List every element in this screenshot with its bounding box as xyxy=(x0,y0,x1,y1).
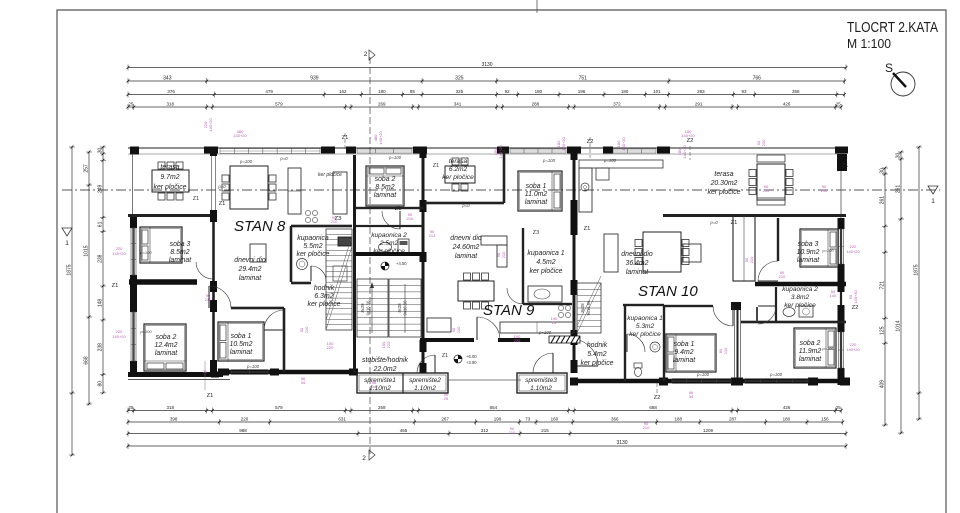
svg-text:ker pločice: ker pločice xyxy=(154,184,187,191)
svg-text:p=0: p=0 xyxy=(279,156,288,161)
svg-text:S: S xyxy=(885,61,893,75)
svg-text:5.4m2: 5.4m2 xyxy=(587,351,606,358)
svg-text:25: 25 xyxy=(444,396,449,401)
door soba3 xyxy=(196,262,213,279)
svg-text:ker pločice: ker pločice xyxy=(581,360,614,367)
svg-text:36.4m2: 36.4m2 xyxy=(626,260,649,267)
svg-text:p=0: p=0 xyxy=(709,220,718,225)
svg-text:laminat: laminat xyxy=(455,253,478,260)
svg-text:465: 465 xyxy=(400,428,408,433)
svg-text:1.10m2: 1.10m2 xyxy=(530,385,552,392)
stairwell right wall xyxy=(422,155,425,373)
svg-text:283: 283 xyxy=(697,89,705,94)
svg-text:140: 140 xyxy=(830,293,837,298)
svg-text:140+20: 140+20 xyxy=(498,145,503,159)
svg-text:kupaonica 2: kupaonica 2 xyxy=(782,286,818,293)
svg-text:8x28: 8x28 xyxy=(360,303,365,313)
svg-text:1209: 1209 xyxy=(703,428,714,433)
stan9 bottom wall xyxy=(420,338,474,342)
svg-text:8.5m2: 8.5m2 xyxy=(375,184,394,191)
tv cabinet xyxy=(250,244,266,262)
svg-text:220: 220 xyxy=(514,338,521,343)
right dimension chains xyxy=(918,147,920,419)
bottom wall stan10 xyxy=(570,379,850,384)
soba 1 stan9 bed xyxy=(518,171,562,211)
svg-text:stubište/hodnik: stubište/hodnik xyxy=(362,357,409,364)
wall left of soba3 xyxy=(777,218,779,261)
main stairwell flights xyxy=(354,252,424,256)
svg-text:+4.50: +4.50 xyxy=(396,261,407,266)
svg-text:190: 190 xyxy=(494,417,502,422)
svg-text:6.2m2: 6.2m2 xyxy=(449,166,468,173)
svg-text:8x28: 8x28 xyxy=(580,303,585,313)
soba 3 stan10 bed xyxy=(800,229,838,267)
svg-text:soba 3: soba 3 xyxy=(798,241,819,248)
stan9 entry door xyxy=(477,317,500,340)
wall under soba2 stan9 xyxy=(356,207,423,209)
svg-text:hodnik: hodnik xyxy=(314,285,335,292)
svg-text:p=100: p=100 xyxy=(603,158,617,163)
svg-text:9.7m2: 9.7m2 xyxy=(160,174,179,181)
svg-text:11.9m2: 11.9m2 xyxy=(799,348,822,355)
soba 1 stan9 walls xyxy=(503,150,506,203)
svg-text:372: 372 xyxy=(613,102,621,107)
svg-text:spremište1: spremište1 xyxy=(364,377,396,384)
svg-text:laminat: laminat xyxy=(797,257,820,264)
soba 1 stan8 bed xyxy=(218,322,264,361)
wall soba1 top (stan8) xyxy=(231,307,284,310)
stan10 kitchen xyxy=(579,160,663,168)
svg-text:1875: 1875 xyxy=(914,264,920,275)
svg-text:p=100: p=100 xyxy=(239,159,253,164)
svg-text:140+20: 140+20 xyxy=(112,334,126,339)
svg-text:p=100: p=100 xyxy=(139,250,152,255)
svg-text:210: 210 xyxy=(407,216,414,221)
svg-text:laminat: laminat xyxy=(169,257,192,264)
svg-text:STAN 8: STAN 8 xyxy=(234,218,286,235)
stan10 dining table xyxy=(643,232,681,272)
wall stan8 bedrooms/living x=213 xyxy=(212,215,215,377)
svg-text:hodnik: hodnik xyxy=(587,342,608,349)
svg-text:210: 210 xyxy=(501,251,506,258)
svg-text:85: 85 xyxy=(410,89,416,94)
svg-text:9x16.66: 9x16.66 xyxy=(586,300,591,316)
svg-text:p=100: p=100 xyxy=(388,155,402,160)
svg-text:Z1: Z1 xyxy=(112,283,119,289)
svg-text:p=100: p=100 xyxy=(696,372,710,377)
stan10 wardrobe wall block xyxy=(733,215,755,281)
svg-text:Z1: Z1 xyxy=(207,393,214,399)
svg-text:261: 261 xyxy=(896,185,902,194)
svg-text:180: 180 xyxy=(621,89,629,94)
svg-text:29.4m2: 29.4m2 xyxy=(238,266,262,273)
soba 1 stan10 bed xyxy=(666,334,716,372)
svg-text:Z2: Z2 xyxy=(654,395,661,401)
compass / north arrow xyxy=(891,72,915,96)
terrace 9.7 walls xyxy=(128,214,213,217)
svg-text:soba 1: soba 1 xyxy=(674,341,695,348)
bottom dimension chains xyxy=(128,410,841,412)
svg-text:p=100: p=100 xyxy=(538,330,552,335)
kupaonica 2 stan10 xyxy=(741,321,846,324)
svg-text:579: 579 xyxy=(275,405,283,410)
kupaonica 1 stan10 walls xyxy=(624,305,626,381)
svg-text:140+20: 140+20 xyxy=(682,145,687,159)
svg-text:631: 631 xyxy=(338,417,346,422)
svg-text:140+20: 140+20 xyxy=(112,251,126,256)
svg-text:213: 213 xyxy=(429,233,436,238)
svg-text:140+20: 140+20 xyxy=(561,137,566,151)
svg-text:p=0: p=0 xyxy=(461,203,470,208)
svg-text:1014: 1014 xyxy=(896,320,902,331)
svg-text:288: 288 xyxy=(532,102,540,107)
svg-text:+6.00: +6.00 xyxy=(466,354,477,359)
svg-text:Z1: Z1 xyxy=(219,201,226,207)
svg-text:238: 238 xyxy=(98,343,104,352)
svg-text:soba 2: soba 2 xyxy=(156,334,177,341)
level marker +6.00 xyxy=(454,355,462,363)
svg-text:140+20: 140+20 xyxy=(681,133,695,138)
svg-text:267: 267 xyxy=(441,417,449,422)
svg-text:210: 210 xyxy=(205,297,212,302)
svg-text:220: 220 xyxy=(241,417,249,422)
svg-text:366: 366 xyxy=(611,417,619,422)
stan9 entry cabinet xyxy=(427,318,451,332)
axis line 1 xyxy=(62,189,940,191)
soba1 right wall xyxy=(737,310,739,378)
svg-text:laminat: laminat xyxy=(230,349,253,356)
svg-text:Z1: Z1 xyxy=(193,196,199,202)
bottom wall left (stan8 bedrooms) xyxy=(128,372,223,377)
left windows xyxy=(130,228,132,275)
svg-text:376: 376 xyxy=(167,89,175,94)
svg-text:180: 180 xyxy=(783,417,791,422)
wall stan9/stan10 x=574 xyxy=(573,155,576,373)
svg-text:20.30m2: 20.30m2 xyxy=(710,180,738,187)
svg-text:kupaonica 1: kupaonica 1 xyxy=(527,250,564,257)
top wall windows p=100 xyxy=(220,148,320,150)
svg-text:ker pločice: ker pločice xyxy=(708,189,741,196)
kupaonica stan8 walls xyxy=(291,225,352,228)
left exterior wall xyxy=(130,147,139,155)
svg-text:140+20: 140+20 xyxy=(846,249,860,254)
svg-text:140+20: 140+20 xyxy=(233,133,247,138)
svg-text:STAN 10: STAN 10 xyxy=(638,283,698,300)
svg-text:8x28: 8x28 xyxy=(397,303,402,313)
svg-text:210: 210 xyxy=(723,347,728,354)
svg-text:soba 2: soba 2 xyxy=(800,340,821,347)
stairwell left wall xyxy=(353,155,356,373)
axis stub lines xyxy=(344,133,346,150)
corridor wall y=306 xyxy=(664,305,713,307)
spremiste row xyxy=(357,373,448,393)
svg-text:249: 249 xyxy=(98,184,104,193)
soba 2 stan8 bed xyxy=(144,324,186,371)
svg-text:ker pločice: ker pločice xyxy=(442,174,474,181)
svg-text:laminat: laminat xyxy=(155,350,178,357)
svg-text:409: 409 xyxy=(880,380,886,389)
stan9 kitchen xyxy=(500,322,574,333)
svg-text:220: 220 xyxy=(327,345,334,350)
top wall columns xyxy=(204,147,218,154)
svg-text:laminat: laminat xyxy=(626,269,649,276)
svg-text:soba 1: soba 1 xyxy=(526,183,547,190)
svg-text:140+30: 140+30 xyxy=(853,290,858,304)
svg-text:101: 101 xyxy=(653,89,661,94)
svg-text:1.10m2: 1.10m2 xyxy=(414,385,436,392)
svg-text:Z1: Z1 xyxy=(395,206,402,212)
kupaonica stan8 fixtures xyxy=(297,259,308,270)
svg-text:287: 287 xyxy=(729,417,737,422)
level marker +4.50 xyxy=(381,262,389,270)
svg-text:398: 398 xyxy=(170,417,178,422)
svg-text:5.5m2: 5.5m2 xyxy=(303,243,322,250)
svg-text:579: 579 xyxy=(275,102,283,107)
svg-text:325: 325 xyxy=(456,89,464,94)
svg-text:p=100: p=100 xyxy=(769,372,783,377)
svg-text:30: 30 xyxy=(880,168,886,174)
svg-text:215: 215 xyxy=(541,428,549,433)
kupaonica 1 stan9 walls xyxy=(522,228,524,304)
svg-text:ker pločice: ker pločice xyxy=(784,302,816,309)
left dimension chains xyxy=(71,147,73,455)
svg-text:426: 426 xyxy=(783,405,791,410)
svg-text:spremište2: spremište2 xyxy=(409,377,441,384)
svg-text:162: 162 xyxy=(339,89,347,94)
building outline base lines xyxy=(128,147,846,149)
svg-text:4.5m2: 4.5m2 xyxy=(536,259,555,266)
svg-text:210: 210 xyxy=(749,256,754,263)
svg-text:laminat: laminat xyxy=(673,357,696,364)
svg-text:210: 210 xyxy=(763,188,770,193)
svg-text:30: 30 xyxy=(896,153,902,159)
svg-text:140+20: 140+20 xyxy=(208,118,213,132)
svg-text:Z1: Z1 xyxy=(842,163,849,169)
svg-text:80: 80 xyxy=(98,381,104,387)
svg-text:988: 988 xyxy=(239,428,247,433)
svg-text:terasa: terasa xyxy=(449,158,468,165)
svg-text:Z1: Z1 xyxy=(442,353,448,359)
svg-text:196: 196 xyxy=(578,89,586,94)
top dimension chains xyxy=(128,67,846,69)
svg-text:210: 210 xyxy=(331,219,338,224)
svg-text:22.0m2: 22.0m2 xyxy=(373,366,397,373)
svg-text:kupaonica 2: kupaonica 2 xyxy=(371,232,407,239)
svg-text:23: 23 xyxy=(552,320,557,325)
svg-text:1: 1 xyxy=(65,240,69,247)
svg-text:180: 180 xyxy=(535,89,543,94)
svg-text:1015: 1015 xyxy=(84,245,90,256)
svg-text:TLOCRT 2.KATA: TLOCRT 2.KATA xyxy=(847,20,938,36)
wall soba1 right x=284 xyxy=(283,308,286,372)
svg-text:Z1: Z1 xyxy=(584,226,591,232)
svg-text:ker pločice: ker pločice xyxy=(629,331,661,338)
svg-text:343: 343 xyxy=(163,76,172,82)
svg-text:dnevni dio: dnevni dio xyxy=(621,251,653,258)
svg-text:341: 341 xyxy=(454,102,462,107)
soba 2 stan9 bed+room xyxy=(366,166,404,206)
svg-text:156: 156 xyxy=(821,417,829,422)
svg-text:M 1:100: M 1:100 xyxy=(847,37,891,51)
svg-text:312: 312 xyxy=(481,428,489,433)
svg-text:ker pločice: ker pločice xyxy=(297,251,330,258)
svg-text:61: 61 xyxy=(98,221,104,227)
svg-text:9x16.66: 9x16.66 xyxy=(366,300,371,316)
stan9 sofa xyxy=(481,236,507,245)
svg-text:soba 1: soba 1 xyxy=(231,333,252,340)
svg-text:325: 325 xyxy=(455,76,464,82)
svg-text:terasa: terasa xyxy=(160,164,179,171)
soba 3 bed xyxy=(140,227,182,263)
svg-text:kupaonica 1: kupaonica 1 xyxy=(627,315,663,322)
stan10 stairs strip xyxy=(577,283,601,333)
svg-text:479: 479 xyxy=(265,89,273,94)
svg-text:p=100: p=100 xyxy=(542,158,556,163)
svg-text:11.0m2: 11.0m2 xyxy=(525,191,548,198)
svg-text:laminat: laminat xyxy=(374,192,397,199)
svg-text:939: 939 xyxy=(310,76,319,82)
dining table stan8 xyxy=(230,166,268,209)
svg-text:688: 688 xyxy=(649,405,657,410)
svg-text:Z2: Z2 xyxy=(852,305,859,311)
svg-text:654: 654 xyxy=(490,405,498,410)
svg-text:Z2: Z2 xyxy=(687,138,694,144)
svg-text:210: 210 xyxy=(821,188,828,193)
svg-text:210: 210 xyxy=(779,274,786,279)
svg-text:1875: 1875 xyxy=(67,264,73,275)
svg-text:318: 318 xyxy=(166,405,174,410)
kupaonica 1 stan9 tub xyxy=(528,286,562,302)
svg-text:25: 25 xyxy=(836,102,842,107)
svg-text:20: 20 xyxy=(203,369,208,374)
svg-text:Z1: Z1 xyxy=(731,220,738,226)
svg-text:140+20: 140+20 xyxy=(378,131,383,145)
svg-text:2: 2 xyxy=(364,51,368,58)
svg-text:25: 25 xyxy=(128,102,134,107)
svg-text:180: 180 xyxy=(378,89,386,94)
svg-text:p=100: p=100 xyxy=(821,346,834,351)
terrace 9.7 table xyxy=(152,170,189,192)
svg-text:ker pločice: ker pločice xyxy=(318,172,342,178)
svg-text:210: 210 xyxy=(509,430,516,435)
svg-text:93: 93 xyxy=(742,89,748,94)
svg-text:terasa: terasa xyxy=(714,171,733,178)
svg-text:210: 210 xyxy=(643,425,650,430)
svg-text:766: 766 xyxy=(753,76,762,82)
svg-text:92: 92 xyxy=(505,89,511,94)
svg-text:p=100: p=100 xyxy=(139,329,152,334)
svg-text:261: 261 xyxy=(880,196,886,205)
svg-text:Z3: Z3 xyxy=(533,230,539,236)
svg-text:34: 34 xyxy=(301,380,306,385)
svg-text:2: 2 xyxy=(362,455,366,462)
svg-text:spremište3: spremište3 xyxy=(525,377,557,384)
svg-text:8.5m2: 8.5m2 xyxy=(170,249,189,256)
svg-text:kupaonica: kupaonica xyxy=(297,235,329,242)
svg-text:148: 148 xyxy=(98,299,104,308)
svg-text:p=100: p=100 xyxy=(821,248,834,253)
svg-text:10.5m2: 10.5m2 xyxy=(230,341,253,348)
terrace 20.30 table xyxy=(757,164,785,200)
svg-text:269: 269 xyxy=(378,405,386,410)
svg-text:34: 34 xyxy=(689,394,694,399)
entry door arcs at bottom hall xyxy=(417,355,435,373)
svg-text:9.4m2: 9.4m2 xyxy=(674,349,693,356)
svg-text:laminat: laminat xyxy=(525,199,548,206)
soba 2 stan10 bed xyxy=(794,328,836,368)
terrace 20.30 bottom wall xyxy=(663,214,846,217)
svg-text:140+20: 140+20 xyxy=(846,347,860,352)
right windows xyxy=(838,229,840,264)
stair arrows xyxy=(372,284,405,333)
svg-text:soba 2: soba 2 xyxy=(375,176,396,183)
wall soba3/soba2 xyxy=(129,279,197,285)
svg-text:ker pločice: ker pločice xyxy=(530,268,563,275)
svg-text:751: 751 xyxy=(579,76,588,82)
svg-text:668: 668 xyxy=(84,356,90,365)
corridor stub wall xyxy=(756,307,758,322)
section line 2 xyxy=(369,57,371,455)
svg-text:dnevni dio: dnevni dio xyxy=(450,235,482,242)
stan9 dining table xyxy=(458,281,494,301)
svg-text:30: 30 xyxy=(98,147,104,153)
svg-text:238: 238 xyxy=(98,254,104,263)
svg-text:220: 220 xyxy=(386,341,391,348)
svg-text:p=100: p=100 xyxy=(246,364,260,369)
mid terrace 6.2 xyxy=(425,202,504,205)
svg-text:ker pločice: ker pločice xyxy=(308,301,341,308)
svg-text:1: 1 xyxy=(931,198,935,205)
svg-text:160: 160 xyxy=(551,417,559,422)
svg-text:25: 25 xyxy=(128,405,134,410)
right exterior wall xyxy=(837,154,847,171)
svg-text:12.4m2: 12.4m2 xyxy=(155,342,178,349)
svg-text:318: 318 xyxy=(166,102,174,107)
svg-text:188: 188 xyxy=(675,417,683,422)
svg-text:10.9m2: 10.9m2 xyxy=(797,249,820,256)
svg-text:laminat: laminat xyxy=(239,275,262,282)
svg-text:721: 721 xyxy=(880,281,886,290)
fold mark xyxy=(536,0,538,13)
corridor doors xyxy=(713,306,733,326)
svg-text:140+20: 140+20 xyxy=(621,137,626,151)
svg-text:dnevni dio: dnevni dio xyxy=(234,257,266,264)
svg-text:laminat: laminat xyxy=(799,356,822,363)
svg-text:426: 426 xyxy=(783,102,791,107)
svg-text:+3.90: +3.90 xyxy=(466,360,477,365)
svg-text:210: 210 xyxy=(304,326,309,333)
svg-text:34: 34 xyxy=(372,384,377,389)
svg-text:291: 291 xyxy=(695,102,703,107)
window sill stan9 xyxy=(549,336,580,343)
soba3 stan10 walls xyxy=(755,282,846,287)
kupaonica 2 (stan8) xyxy=(356,225,423,227)
svg-text:3130: 3130 xyxy=(616,440,627,446)
svg-text:3130: 3130 xyxy=(481,62,492,68)
stan8 stairs strip xyxy=(326,229,352,330)
svg-text:Z1: Z1 xyxy=(433,163,439,169)
bottom wall mid xyxy=(218,370,358,375)
svg-text:soba 3: soba 3 xyxy=(170,241,191,248)
svg-text:210: 210 xyxy=(761,139,766,146)
svg-text:358: 358 xyxy=(792,89,800,94)
svg-text:73: 73 xyxy=(525,417,531,422)
svg-text:210: 210 xyxy=(456,326,461,333)
svg-text:25: 25 xyxy=(836,405,842,410)
svg-text:6.3m2: 6.3m2 xyxy=(314,293,333,300)
kitchen stan8 xyxy=(288,168,301,214)
svg-text:125: 125 xyxy=(880,326,886,335)
